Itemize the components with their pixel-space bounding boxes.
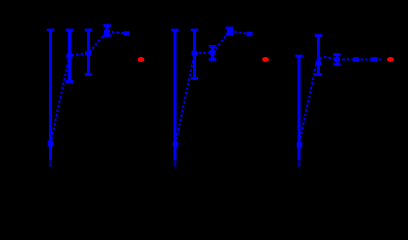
dashed connector curve, subplot 1	[51, 32, 127, 144]
error bar 2-4	[226, 28, 234, 34]
error bar 2-3	[209, 47, 217, 60]
error bar 3-3	[333, 55, 341, 65]
marker 2-4	[227, 29, 233, 34]
marker 3-4	[353, 57, 359, 62]
error bar 3-1	[295, 56, 303, 167]
error bar 3-2	[315, 36, 323, 75]
marker 1-2	[67, 54, 73, 59]
error bar 1-1	[47, 30, 55, 167]
marker 1-3	[85, 51, 91, 56]
red reference point, subplot 1	[138, 57, 145, 62]
dashed fit curve, subplot 3	[299, 57, 381, 143]
marker 2-3	[210, 50, 216, 55]
red reference point, subplot 3	[387, 57, 394, 62]
marker 3-5	[371, 57, 378, 62]
marker 1-1	[48, 141, 54, 147]
marker 3-2	[316, 61, 322, 66]
marker 2-1	[173, 141, 179, 147]
error bar 1-4	[103, 26, 111, 36]
marker 3-1	[297, 142, 303, 148]
marker 2-5	[247, 32, 253, 37]
red reference point, subplot 2	[262, 57, 269, 62]
error bar 2-2	[191, 30, 199, 79]
marker 3-3	[334, 57, 340, 62]
marker 1-4	[104, 30, 110, 35]
error bar 1-2	[66, 30, 74, 82]
marker 2-2	[192, 51, 198, 56]
error bar 1-3	[85, 30, 93, 75]
dashed connector curve, subplot 2	[176, 31, 250, 144]
error bar 2-1	[171, 30, 179, 167]
marker 1-5	[124, 31, 130, 36]
